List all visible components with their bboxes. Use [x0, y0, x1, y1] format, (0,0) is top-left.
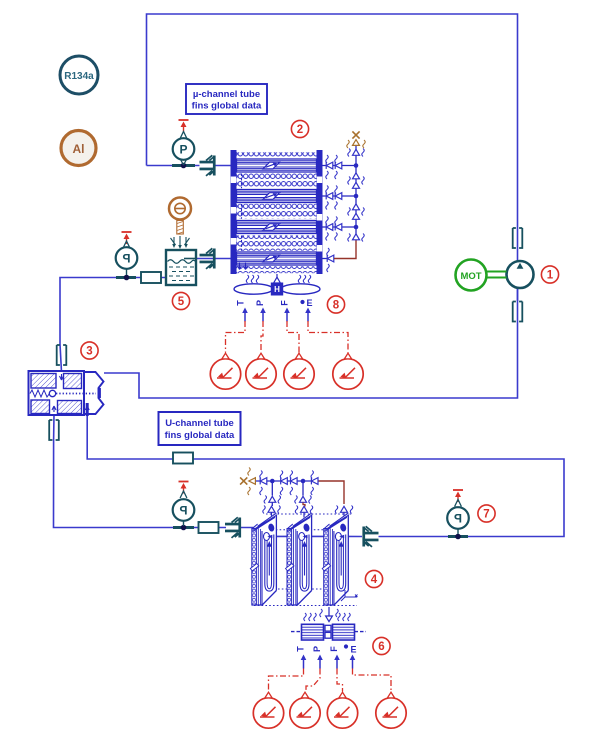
orifice bracket (valve bottom port) — [49, 420, 59, 440]
heat squiggles below condenser right — [298, 275, 310, 283]
svg-text:R134a: R134a — [64, 71, 94, 82]
svg-text:MOT: MOT — [460, 271, 481, 282]
condenser 2: heat exchanger core — [237, 152, 317, 273]
svg-text:E: E — [350, 645, 356, 655]
refrigerant property circle R134a — [60, 56, 98, 94]
wire compressor suction to 4-way valve pilot — [104, 288, 518, 398]
fan 6 — [291, 624, 366, 640]
svg-text:P: P — [122, 251, 130, 265]
ambient temperature source X (brown) — [352, 131, 359, 138]
wire tank to condenser outlet — [196, 258, 231, 260]
wire valve bottom to evaporator inlet — [54, 415, 254, 528]
fin band bottom — [237, 266, 317, 273]
pipe resistor on suction return line — [173, 453, 193, 464]
svg-text:8: 8 — [333, 300, 340, 312]
material property circle Al — [61, 131, 96, 166]
air thermal chain vertical (condenser) — [347, 131, 365, 241]
svg-text:E: E — [306, 298, 312, 308]
fin band top — [237, 152, 317, 159]
svg-text:4: 4 — [371, 574, 378, 586]
signal source circles (fan 8) — [210, 353, 240, 389]
fin dash-dot verticals — [241, 174, 243, 251]
condenser right header — [317, 150, 323, 274]
pipe resistor (evaporator inlet) — [199, 522, 219, 533]
wire condenser inlet segment — [147, 165, 232, 167]
signal source circles (fan 6) — [253, 692, 283, 728]
fin band C — [237, 235, 317, 251]
slab top port triangles — [263, 506, 353, 519]
svg-text:T: T — [236, 300, 246, 306]
node q-sensor junction (evaporator inlet) — [173, 525, 194, 531]
evaporator slab 3 — [322, 513, 348, 605]
heat squiggles below condenser left — [246, 275, 258, 283]
node p-sensor junction (suction line) — [448, 534, 468, 540]
orifice bracket (valve top port) — [57, 345, 67, 365]
label 5 — [172, 292, 189, 309]
evaporator slab 1 — [250, 513, 276, 605]
throttle valve (condenser outlet to tank) — [200, 248, 216, 269]
label 1 — [541, 266, 558, 283]
expansion valve 3 block — [29, 371, 104, 416]
fin band A — [237, 173, 317, 188]
label 8 — [327, 296, 344, 313]
signal wires dash-dot to sources (fan 6) — [269, 669, 392, 692]
label 6 — [373, 637, 390, 654]
label 3 — [81, 342, 98, 359]
axis glyph near slab 3 — [341, 590, 358, 601]
evaporator bottom port to fan 6 — [320, 607, 338, 622]
data box mu-channel tube fins global data — [186, 84, 267, 114]
thermometer sensor on tank — [169, 198, 191, 235]
svg-text:fins global data: fins global data — [192, 101, 262, 112]
valve pilot actuator — [84, 372, 104, 414]
svg-text:P: P — [179, 503, 187, 517]
data box U-channel tube fins global data — [159, 412, 241, 445]
svg-text:F: F — [329, 646, 339, 652]
condenser bottom stub y258.5 — [323, 240, 357, 272]
evaporator slab 2 — [286, 513, 312, 605]
evaporator air chain horizontal — [240, 468, 344, 505]
svg-text:µ-channel tube: µ-channel tube — [193, 89, 260, 100]
wire tank left to q sensor junction to valve — [60, 278, 166, 373]
evaporator air chain verticals — [264, 481, 311, 507]
heat squiggles above fan 6 — [304, 613, 350, 621]
throttle valve (evaporator outlet, mirrored) — [362, 526, 378, 547]
pressure sensor P (condenser inlet) — [173, 120, 195, 165]
svg-text:fins global data: fins global data — [165, 430, 235, 441]
throttle valve (condenser inlet) — [200, 155, 216, 176]
evaporator construction dotted lines — [254, 514, 357, 606]
svg-text:U-channel tube: U-channel tube — [165, 418, 234, 429]
wire evaporator outlet to suction line rectangle back to valve — [87, 414, 564, 537]
fan 6 port labels — [296, 644, 357, 654]
fin band B — [237, 204, 317, 219]
label 7 — [478, 505, 495, 522]
motor MOT — [456, 260, 507, 291]
svg-text:2: 2 — [297, 124, 303, 136]
svg-text:F: F — [280, 300, 290, 306]
label 4 — [365, 570, 382, 587]
condenser tube rows — [237, 159, 317, 265]
condenser air-side stubs y227 — [323, 217, 357, 241]
compressor orifice bracket top — [513, 228, 523, 248]
svg-text:P: P — [179, 143, 187, 157]
fan 8 port labels T P F E — [236, 298, 313, 308]
svg-text:Al: Al — [73, 142, 85, 156]
node P-sensor junction — [172, 163, 195, 169]
svg-text:T: T — [296, 646, 306, 652]
node q-sensor junction (tank) — [116, 275, 136, 281]
svg-text:6: 6 — [378, 641, 384, 653]
pressure sensor q 7 (suction line) — [447, 490, 469, 534]
svg-text:P: P — [255, 300, 265, 306]
condenser air-side stubs y196 — [323, 186, 357, 210]
condenser drain ports bottom-left — [238, 263, 248, 270]
tank inlet arrows — [171, 236, 190, 246]
wire inter-slab links — [269, 535, 335, 537]
svg-text:7: 7 — [483, 509, 489, 521]
fan 8 below condenser — [234, 274, 320, 295]
pipe resistor (tank to junction) — [141, 272, 161, 283]
fan 6 input arrows — [301, 655, 307, 669]
fan 8 input arrows — [242, 308, 248, 322]
compressor 1 — [507, 261, 534, 288]
condenser air-side stubs with check valves y165.5 — [323, 155, 357, 179]
svg-text:P: P — [454, 511, 462, 525]
compressor orifice bracket bottom — [513, 302, 523, 322]
svg-text:P: P — [312, 646, 322, 652]
throttle valve (evaporator inlet) — [225, 517, 241, 538]
signal wires dash-dot to sources (fan 8) — [226, 321, 349, 353]
svg-text:1: 1 — [547, 270, 554, 282]
label 2 — [291, 120, 308, 137]
pressure sensor q (evaporator inlet) — [173, 482, 195, 527]
svg-text:H: H — [274, 285, 280, 294]
wire main loop top: compressor discharge to condenser inlet — [54, 14, 565, 537]
svg-text:3: 3 — [86, 346, 92, 358]
condenser left header — [231, 150, 237, 274]
svg-text:5: 5 — [178, 296, 185, 308]
accumulator tank 5 — [166, 250, 197, 285]
pressure sensor q (tank outlet) — [116, 232, 138, 275]
